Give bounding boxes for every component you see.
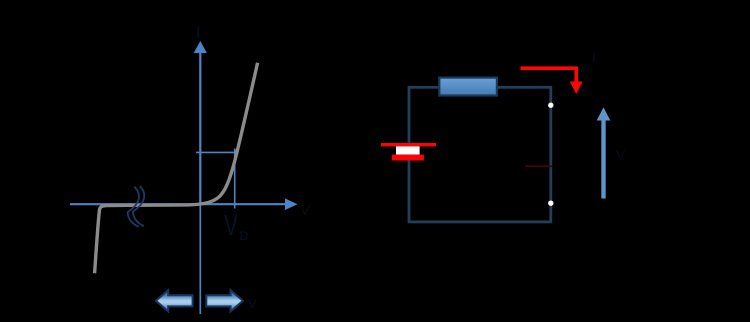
svg-text:V: V [248, 296, 257, 311]
svg-text:I: I [592, 49, 596, 65]
svg-text:V: V [300, 202, 310, 219]
svg-text:V: V [616, 147, 626, 163]
svg-text:I: I [196, 25, 200, 42]
svg-text:D: D [240, 229, 249, 243]
svg-text:V: V [224, 209, 238, 241]
